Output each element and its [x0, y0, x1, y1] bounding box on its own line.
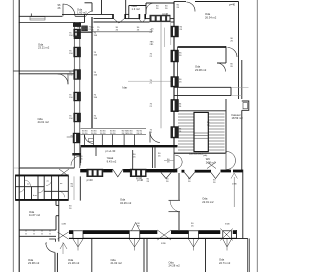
- svg-text:26 26: 26 26: [137, 133, 143, 135]
- bottom heavy wall band: [69, 230, 237, 239]
- hall bottom heavy wall: [81, 145, 178, 147]
- svg-text:1/2B: 1/2B: [232, 184, 237, 186]
- window W8 east wall: [171, 50, 179, 62]
- svg-text:5/2B: 5/2B: [225, 224, 230, 226]
- svg-text:22.01 m2: 22.01 m2: [202, 200, 214, 204]
- middle rooms walls: [92, 170, 250, 272]
- svg-text:44.01 m2: 44.01 m2: [38, 120, 50, 124]
- window W3 left wall: [74, 70, 81, 80]
- svg-text:p=40: p=40: [229, 3, 236, 7]
- room verticals: [101, 0, 103, 14]
- door V marks top band: [114, 19, 125, 23]
- svg-text:wc: wc: [60, 183, 62, 185]
- heavy interior wall y168-173: [80, 169, 243, 173]
- window box junction: [82, 26, 88, 31]
- door arc hall SW corner: [85, 135, 94, 144]
- svg-text:22.71 m2: 22.71 m2: [219, 261, 231, 265]
- dashed wall bottom of 11.67: [19, 229, 56, 231]
- door arc top-left: [63, 4, 75, 16]
- svg-text:p=+1.30: p=+1.30: [105, 149, 115, 153]
- window top-left: [30, 17, 45, 20]
- svg-text:wc: wc: [27, 184, 29, 186]
- stairs bottom wall: [174, 152, 226, 154]
- door room F right: [217, 63, 226, 72]
- door arc near top-left room: [86, 11, 94, 17]
- door arc bottom left room: [46, 243, 56, 253]
- svg-text:26.34 m2: 26.34 m2: [205, 16, 217, 20]
- window center ticks bottom band: [77, 239, 79, 251]
- svg-text:24.28 m2: 24.28 m2: [169, 264, 181, 268]
- stair treads: [178, 113, 225, 115]
- svg-text:p=40: p=40: [162, 12, 169, 16]
- svg-text:9.43 m2: 9.43 m2: [107, 159, 117, 163]
- corridor S arcs: [227, 152, 236, 161]
- window W1 left wall: [74, 29, 81, 37]
- hall right wall: [174, 2, 178, 147]
- window W2 left wall: [74, 47, 81, 57]
- small rooms block left: [16, 175, 81, 201]
- windows on wall y168: [87, 169, 147, 177]
- band piers: [73, 23, 81, 27]
- bay window right: [242, 101, 249, 110]
- stairs divider box: [194, 112, 208, 151]
- window W7 east wall: [171, 26, 179, 37]
- svg-text:Oda: Oda: [205, 12, 211, 16]
- window W10 east wall: [171, 99, 179, 111]
- window W15 south band: [129, 231, 140, 239]
- left window wall band: [74, 22, 80, 168]
- door jambs top band: [112, 14, 114, 19]
- window W6 left wall: [73, 133, 80, 143]
- big window on top wall: [150, 15, 171, 22]
- X door right of 11.67: [58, 232, 69, 239]
- svg-text:2.08 m2: 2.08 m2: [206, 160, 216, 164]
- svg-text:23.38 m2: 23.38 m2: [28, 261, 40, 265]
- svg-text:wc: wc: [47, 181, 49, 183]
- svg-text:11.67 m2: 11.67 m2: [29, 213, 41, 217]
- wall mid horizontal (rooms divider y71): [14, 70, 75, 72]
- wc door X: [207, 162, 216, 169]
- top-left wall band: [19, 15, 62, 17]
- window W4 left wall: [74, 92, 81, 101]
- corridor band right: [174, 86, 231, 88]
- door arc x146: [146, 3, 154, 11]
- small arcs in block: [25, 180, 31, 186]
- top wall band y14.4-18.5: [62, 13, 112, 15]
- svg-text:21.18 m2: 21.18 m2: [68, 261, 80, 265]
- window W17 south band: [223, 231, 232, 239]
- door arc hall bottom right: [150, 132, 160, 143]
- band door arc vestibule: [71, 156, 81, 166]
- svg-text:26 26: 26 26: [100, 133, 106, 135]
- svg-text:23.08 m2: 23.08 m2: [195, 68, 207, 72]
- svg-text:1.3 m2: 1.3 m2: [132, 7, 141, 11]
- svg-text:1.60 m2: 1.60 m2: [77, 11, 87, 15]
- svg-text:p=40: p=40: [87, 178, 94, 182]
- right exterior wall: [238, 2, 240, 100]
- marks under boxes: [73, 222, 233, 247]
- window W5 left wall: [74, 113, 81, 122]
- middle band rooms (y147-168): [81, 146, 236, 173]
- door A mark: [113, 169, 124, 177]
- hall interior dim line: [74, 31, 152, 33]
- svg-text:(Hb): (Hb): [203, 155, 208, 157]
- svg-text:p=40: p=40: [136, 176, 143, 180]
- right rooms: [174, 2, 249, 173]
- border left: [12, 0, 14, 272]
- svg-text:21.02 m2: 21.02 m2: [111, 261, 123, 265]
- window W13 interior wall: [130, 169, 146, 177]
- double door arcs lavabo: [175, 155, 182, 162]
- hall left wall: [74, 3, 93, 129]
- windows on right wall: [171, 26, 179, 138]
- svg-text:26 26: 26 26: [82, 133, 88, 135]
- X doors in bottom wall: [157, 230, 171, 240]
- window W14 south band: [73, 231, 83, 239]
- right side walls: [242, 170, 244, 239]
- hall bottom window row: [81, 128, 161, 145]
- window W16 south band: [189, 231, 199, 239]
- svg-text:18.59 m2: 18.59 m2: [232, 116, 244, 120]
- left exterior wall: [18, 0, 20, 168]
- svg-text:26 26: 26 26: [91, 133, 97, 135]
- dim line right column: [233, 177, 235, 207]
- svg-text:1/2B: 1/2B: [61, 224, 66, 226]
- svg-text:26 26: 26 26: [127, 133, 133, 135]
- landing room left wall: [225, 99, 227, 153]
- svg-text:23.21 m2: 23.21 m2: [38, 46, 50, 50]
- window W9 east wall: [171, 77, 179, 88]
- door arc room2: [58, 74, 68, 84]
- svg-text:26 26: 26 26: [110, 133, 116, 135]
- room 11.67: [19, 168, 68, 272]
- top rooms walls: [62, 0, 174, 22]
- stairs top wall: [178, 110, 226, 112]
- svg-text:Lavabo(wc): Lavabo(wc): [189, 152, 203, 156]
- window W12 interior wall: [87, 169, 103, 177]
- svg-text:Oda: Oda: [195, 65, 201, 69]
- bottom rooms dividers: [91, 239, 93, 272]
- svg-text:5/2B: 5/2B: [161, 243, 166, 245]
- room E bottom wall: [178, 45, 227, 47]
- border right: [256, 0, 258, 272]
- svg-text:b.wc: b.wc: [33, 195, 37, 197]
- dimension fraction labels: [58, 3, 238, 245]
- top wall room A: [85, 2, 93, 4]
- door arc E: [228, 48, 238, 58]
- dim tick x31: [30, 14, 32, 16]
- stairs: [178, 114, 225, 150]
- big room bottom wall (left): [13, 167, 20, 169]
- white window boxes in bottom wall: [73, 231, 232, 239]
- window W11 east wall: [171, 127, 179, 139]
- top wall right part: [174, 1, 186, 3]
- X door to block: [59, 169, 69, 176]
- svg-text:34.26 m2: 34.26 m2: [120, 201, 132, 205]
